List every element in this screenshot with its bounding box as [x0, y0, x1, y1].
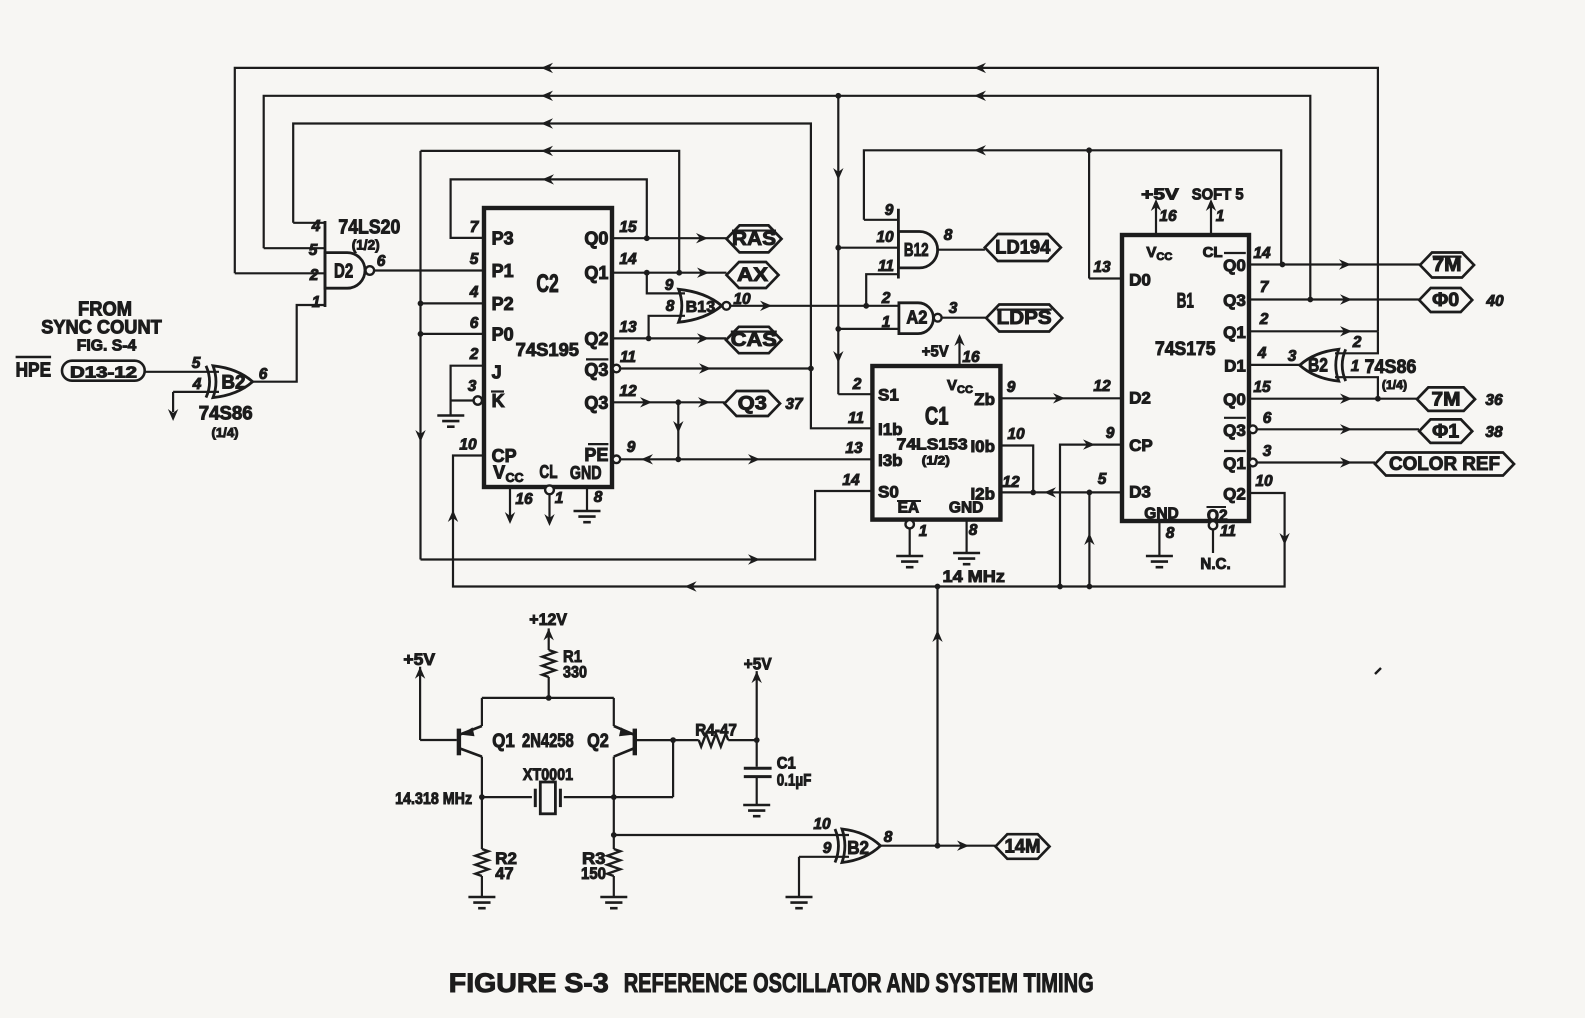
- svg-text:1: 1: [555, 490, 564, 507]
- svg-text:8: 8: [884, 829, 893, 846]
- svg-text:8: 8: [969, 522, 978, 539]
- svg-text:CC: CC: [1156, 251, 1172, 263]
- svg-text:9: 9: [665, 277, 674, 294]
- svg-text:38: 38: [1485, 424, 1503, 441]
- svg-text:A2: A2: [906, 308, 927, 328]
- svg-text:4: 4: [1257, 345, 1267, 362]
- svg-text:SYNC COUNT: SYNC COUNT: [41, 318, 162, 339]
- svg-text:10: 10: [459, 437, 477, 454]
- svg-text:Q0: Q0: [1223, 256, 1246, 275]
- svg-text:P1: P1: [492, 261, 514, 281]
- svg-text:S1: S1: [878, 386, 899, 405]
- svg-text:Q2: Q2: [1223, 485, 1246, 504]
- svg-text:Zb: Zb: [974, 390, 995, 409]
- svg-text:14: 14: [619, 251, 637, 268]
- svg-text:2: 2: [881, 290, 891, 307]
- svg-text:3: 3: [468, 378, 477, 395]
- svg-text:5: 5: [309, 242, 318, 259]
- svg-text:3: 3: [949, 300, 958, 317]
- svg-text:+5V: +5V: [1141, 186, 1179, 203]
- svg-text:B1: B1: [1177, 290, 1194, 313]
- svg-text:D1: D1: [1224, 356, 1246, 375]
- svg-text:13: 13: [1093, 259, 1111, 276]
- svg-text:V: V: [1146, 244, 1156, 261]
- svg-text:Q3: Q3: [584, 360, 608, 380]
- svg-text:7M: 7M: [1433, 255, 1462, 276]
- svg-text:C2: C2: [536, 270, 558, 298]
- svg-text:7M: 7M: [1432, 389, 1461, 410]
- svg-text:CC: CC: [506, 471, 524, 485]
- svg-text:Q0: Q0: [1223, 390, 1246, 409]
- svg-text:2: 2: [1352, 334, 1362, 351]
- svg-text:11: 11: [1220, 523, 1236, 540]
- svg-text:Q3: Q3: [1223, 291, 1246, 310]
- svg-text:Q3: Q3: [584, 393, 608, 413]
- svg-text:Φ1: Φ1: [1432, 421, 1459, 442]
- svg-text:13: 13: [619, 319, 637, 336]
- svg-text:AX: AX: [737, 265, 768, 286]
- svg-text:S0: S0: [878, 483, 899, 502]
- svg-text:+5V: +5V: [922, 344, 949, 361]
- svg-text:74LS20: 74LS20: [338, 217, 400, 239]
- svg-text:(1/2): (1/2): [352, 237, 380, 253]
- svg-text:CL: CL: [1203, 244, 1223, 261]
- svg-text:C1: C1: [925, 403, 949, 431]
- svg-text:10: 10: [813, 816, 831, 833]
- svg-text:7: 7: [470, 219, 480, 236]
- svg-text:+5V: +5V: [403, 650, 435, 669]
- svg-text:10: 10: [1255, 473, 1273, 490]
- svg-text:15: 15: [1253, 379, 1271, 396]
- svg-text:8: 8: [944, 227, 953, 244]
- svg-text:CP: CP: [1129, 436, 1153, 455]
- svg-text:1: 1: [312, 294, 321, 311]
- svg-text:330: 330: [563, 663, 587, 682]
- svg-text:(1/4): (1/4): [1382, 378, 1407, 392]
- svg-text:B2: B2: [221, 373, 245, 394]
- svg-text:Q1: Q1: [492, 731, 515, 752]
- svg-text:D0: D0: [1129, 271, 1151, 290]
- svg-text:V: V: [947, 377, 957, 394]
- svg-text:P2: P2: [492, 294, 514, 314]
- svg-text:Q1: Q1: [1223, 323, 1246, 342]
- svg-text:B13: B13: [686, 299, 716, 316]
- svg-text:Q2: Q2: [587, 731, 609, 752]
- svg-text:Q0: Q0: [584, 229, 608, 249]
- svg-text:(1/2): (1/2): [922, 454, 950, 468]
- svg-text:COLOR REF: COLOR REF: [1389, 454, 1500, 475]
- svg-text:+5V: +5V: [744, 654, 772, 673]
- svg-text:40: 40: [1485, 293, 1504, 310]
- svg-text:0.1µF: 0.1µF: [777, 771, 812, 790]
- svg-text:9: 9: [1106, 425, 1115, 442]
- svg-text:1: 1: [882, 314, 891, 331]
- svg-text:D13-12: D13-12: [70, 365, 137, 382]
- svg-text:Q1: Q1: [584, 263, 608, 283]
- svg-text:PE: PE: [584, 445, 608, 465]
- svg-text:Q3: Q3: [738, 394, 767, 415]
- svg-text:GND: GND: [570, 463, 602, 483]
- svg-text:10: 10: [1007, 426, 1025, 443]
- svg-text:74LS153: 74LS153: [897, 437, 968, 454]
- svg-text:8: 8: [666, 298, 675, 315]
- svg-text:HPE: HPE: [16, 359, 52, 381]
- svg-text:9: 9: [885, 202, 894, 219]
- svg-text:C1: C1: [777, 753, 796, 772]
- svg-text:4: 4: [311, 218, 321, 235]
- svg-text:8: 8: [594, 489, 603, 506]
- svg-text:I0b: I0b: [970, 437, 995, 456]
- svg-text:12: 12: [1002, 474, 1020, 491]
- svg-text:RAS: RAS: [732, 229, 776, 250]
- svg-text:I3b: I3b: [878, 451, 903, 470]
- svg-text:CAS: CAS: [731, 330, 777, 351]
- svg-text:1: 1: [1216, 208, 1225, 225]
- svg-text:LD194: LD194: [995, 238, 1050, 259]
- svg-text:FIGURE S-3: FIGURE S-3: [449, 968, 609, 998]
- svg-text:GND: GND: [1144, 506, 1178, 523]
- svg-text:D3: D3: [1129, 483, 1151, 502]
- svg-text:74S195: 74S195: [516, 340, 579, 360]
- svg-text:Q2: Q2: [584, 329, 608, 349]
- svg-text:D2: D2: [334, 261, 353, 283]
- svg-text:2N4258: 2N4258: [522, 731, 574, 752]
- svg-text:Q3: Q3: [1223, 421, 1246, 440]
- svg-text:9: 9: [1007, 379, 1016, 396]
- svg-text:I1b: I1b: [878, 420, 903, 439]
- svg-text:7: 7: [1260, 279, 1270, 296]
- svg-text:14: 14: [1253, 245, 1271, 262]
- svg-text:B2: B2: [847, 838, 869, 858]
- svg-text:11: 11: [878, 258, 894, 275]
- svg-text:14M: 14M: [1005, 837, 1041, 858]
- svg-text:1: 1: [1351, 358, 1360, 375]
- svg-text:6: 6: [259, 366, 268, 383]
- svg-text:K: K: [492, 391, 505, 411]
- svg-text:12: 12: [1093, 378, 1111, 395]
- svg-text:6: 6: [377, 253, 386, 270]
- svg-text:3: 3: [1263, 443, 1272, 460]
- svg-text:+12V: +12V: [529, 610, 567, 629]
- svg-text:74S86: 74S86: [1365, 356, 1417, 378]
- svg-text:16: 16: [1159, 208, 1177, 225]
- svg-text:FIG. S-4: FIG. S-4: [77, 338, 137, 355]
- svg-text:9: 9: [627, 439, 636, 456]
- svg-text:16: 16: [515, 491, 533, 508]
- svg-text:R4-47: R4-47: [695, 720, 737, 739]
- svg-text:11: 11: [848, 410, 864, 427]
- svg-text:13: 13: [845, 440, 863, 457]
- svg-text:CC: CC: [957, 384, 973, 396]
- svg-text:2: 2: [469, 346, 479, 363]
- svg-text:6: 6: [470, 315, 479, 332]
- svg-text:SOFT 5: SOFT 5: [1192, 186, 1244, 203]
- svg-text:4: 4: [192, 376, 202, 393]
- svg-text:6: 6: [1263, 410, 1272, 427]
- svg-text:B12: B12: [904, 240, 929, 260]
- svg-text:CL: CL: [539, 462, 557, 482]
- svg-text:LDPS: LDPS: [997, 308, 1052, 329]
- svg-text:(1/4): (1/4): [212, 425, 239, 440]
- svg-text:14 MHz: 14 MHz: [943, 567, 1005, 586]
- svg-text:12: 12: [619, 383, 637, 400]
- svg-text:P0: P0: [492, 324, 514, 344]
- svg-text:2: 2: [1259, 311, 1269, 328]
- svg-text:37: 37: [785, 396, 804, 413]
- svg-text:47: 47: [495, 864, 513, 883]
- svg-text:4: 4: [469, 284, 479, 301]
- svg-text:B2: B2: [1308, 356, 1328, 377]
- svg-text:REFERENCE OSCILLATOR AND SYSTE: REFERENCE OSCILLATOR AND SYSTEM TIMING: [624, 968, 1094, 998]
- svg-text:2: 2: [309, 267, 319, 284]
- svg-text:14: 14: [842, 472, 860, 489]
- svg-text:Φ0: Φ0: [1432, 290, 1459, 311]
- svg-text:5: 5: [470, 251, 479, 268]
- svg-text:5: 5: [192, 355, 201, 372]
- svg-text:15: 15: [619, 219, 637, 236]
- svg-text:10: 10: [733, 291, 751, 308]
- svg-text:Q1: Q1: [1223, 454, 1246, 473]
- svg-text:74S175: 74S175: [1155, 339, 1216, 360]
- svg-text:10: 10: [876, 229, 894, 246]
- svg-text:1: 1: [919, 523, 928, 540]
- svg-text:8: 8: [1166, 525, 1175, 542]
- svg-text:150: 150: [581, 864, 606, 883]
- svg-text:11: 11: [620, 349, 636, 366]
- svg-text:J: J: [492, 363, 502, 383]
- svg-text:14.318 MHz: 14.318 MHz: [395, 789, 472, 808]
- svg-text:16: 16: [962, 349, 980, 366]
- svg-text:36: 36: [1485, 392, 1503, 409]
- svg-text:D2: D2: [1129, 389, 1151, 408]
- svg-text:9: 9: [823, 840, 832, 857]
- svg-text:74S86: 74S86: [199, 404, 253, 425]
- svg-text:EA: EA: [898, 500, 920, 517]
- svg-text:V: V: [493, 463, 505, 483]
- svg-text:3: 3: [1288, 348, 1297, 365]
- svg-text:GND: GND: [949, 500, 983, 517]
- svg-text:P3: P3: [492, 229, 514, 249]
- svg-text:N.C.: N.C.: [1200, 556, 1230, 573]
- svg-text:2: 2: [852, 376, 862, 393]
- svg-text:5: 5: [1098, 471, 1107, 488]
